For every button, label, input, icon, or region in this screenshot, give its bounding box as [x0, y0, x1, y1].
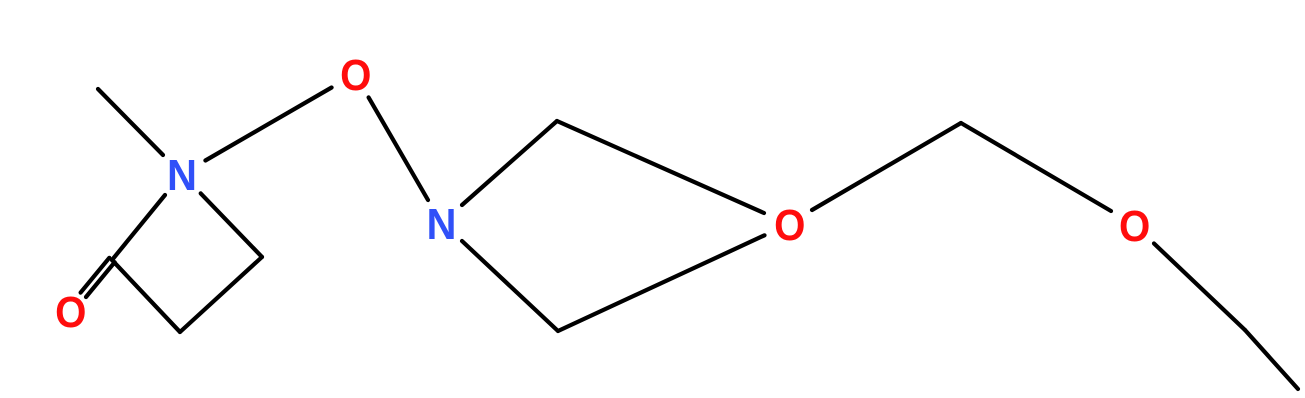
- wire: methyl bond CH3 to N1: [98, 89, 163, 155]
- wire: bond C4 to C5 ring carbon: [180, 257, 262, 332]
- wire: bond Ce to O4: [961, 123, 1111, 211]
- wire: carbonyl double bond C3=O2 line a: [86, 262, 115, 297]
- wire: bond O3 to apex carbon Ce: [812, 123, 961, 210]
- svg-text:N: N: [167, 151, 197, 200]
- wire: bond Cd to O3: [558, 235, 765, 331]
- wire: bond C5 to N1: [201, 193, 262, 257]
- svg-text:O: O: [774, 201, 805, 250]
- wire: bond N2 to apex carbon Ca: [462, 121, 557, 205]
- wire: bond N2 to valley carbon Cd: [462, 241, 558, 331]
- wire: carbonyl double bond C3=O2 line b: [81, 258, 110, 293]
- wire: bond C3 to C4 ring carbon: [112, 260, 180, 332]
- wire: bond Ca to O3: [557, 121, 764, 213]
- wire: terminal tail bond: [1245, 330, 1298, 389]
- wire: bond O4 to tail carbon: [1154, 244, 1245, 331]
- wire: bond N1 to O1: [205, 88, 331, 161]
- wire: bond N1 to C3 ring carbon: [112, 195, 165, 260]
- wire: bond O1 to N2: [369, 97, 428, 200]
- svg-text:O: O: [1119, 202, 1150, 251]
- svg-text:O: O: [55, 288, 86, 337]
- svg-text:N: N: [427, 200, 457, 249]
- svg-text:O: O: [340, 51, 371, 100]
